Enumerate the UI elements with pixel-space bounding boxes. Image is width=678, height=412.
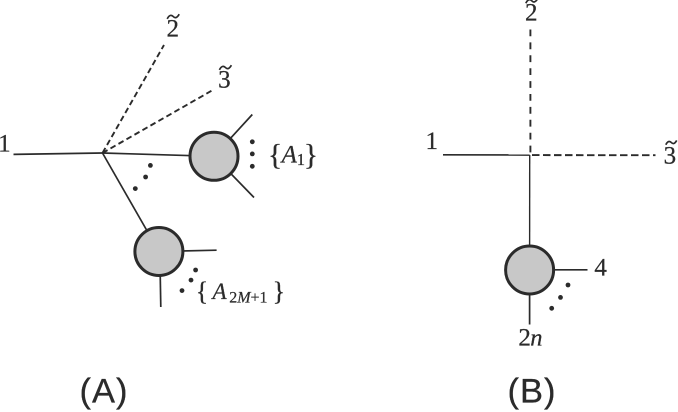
label {A_1}: [268, 138, 318, 171]
label 3tilde (diagram A): [218, 65, 231, 93]
dots between vertex legs (diagram A): [133, 163, 153, 191]
wire dashed leg 3tilde (diagram A): [103, 91, 213, 154]
label 2tilde (diagram B): [525, 0, 538, 26]
blob B leg right: [530, 269, 588, 271]
dots below-right of blob A2: [180, 268, 198, 293]
label 2tilde (diagram A): [166, 14, 179, 42]
blob A1 leg lower-right: [214, 156, 254, 197]
svg-text:1: 1: [426, 128, 439, 155]
svg-text:n: n: [530, 325, 542, 352]
svg-text:(A): (A): [80, 372, 129, 410]
dots right of blob A1: [250, 139, 255, 168]
svg-text:{: {: [268, 138, 282, 171]
svg-text:{: {: [196, 277, 208, 306]
blob A1: [190, 132, 238, 180]
wire vertex to blob A2: [103, 153, 159, 252]
blob A2 leg right: [159, 250, 217, 251]
svg-text:}: }: [304, 138, 318, 171]
svg-text:A: A: [211, 279, 228, 304]
svg-text:A: A: [280, 141, 298, 168]
label 2n (diagram B): [518, 325, 542, 352]
wire leg 1 (diagram B): [443, 154, 530, 156]
svg-text:3: 3: [218, 66, 231, 93]
svg-text:2M+1: 2M+1: [229, 290, 267, 307]
blob A1 leg upper-right: [214, 115, 252, 157]
svg-text:(B): (B): [508, 372, 557, 410]
blob A2: [135, 228, 183, 276]
wire dashed leg 3tilde (diagram B): [532, 154, 656, 156]
svg-text:1: 1: [0, 131, 11, 158]
svg-text:2: 2: [518, 325, 531, 352]
blob B: [506, 246, 554, 294]
label {A_2M+1}: [196, 277, 285, 307]
dots below-right of blob B: [549, 283, 570, 311]
svg-text:2: 2: [525, 0, 538, 26]
svg-text:}: }: [273, 277, 285, 306]
label 3tilde (diagram B): [664, 140, 677, 169]
wire dashed leg 2tilde (diagram A): [103, 45, 165, 153]
svg-text:3: 3: [664, 143, 677, 170]
wire cross to blob B: [529, 155, 531, 270]
svg-text:2: 2: [166, 15, 179, 42]
wire vertex to blob A1: [103, 153, 215, 156]
wire dashed leg 2tilde (diagram B): [529, 30, 531, 153]
blob A2 leg down: [160, 252, 161, 308]
blob B leg down: [529, 270, 531, 325]
wire leg 1 (diagram A): [14, 153, 103, 154]
svg-text:4: 4: [594, 254, 607, 281]
